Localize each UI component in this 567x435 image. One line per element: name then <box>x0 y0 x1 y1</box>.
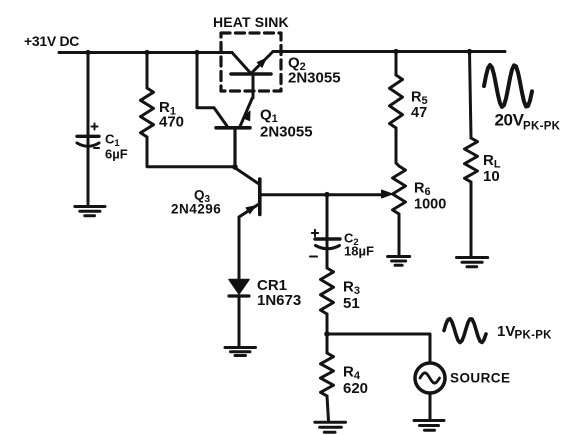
wire R1 bottom to base node <box>147 137 235 167</box>
ground CR1 <box>225 348 256 356</box>
svg-text:1000: 1000 <box>414 197 446 213</box>
wire R3 to junction <box>326 314 329 334</box>
node R3 R4 junction <box>324 331 330 337</box>
ground C1 <box>75 207 105 216</box>
wire Q3 base line <box>260 193 382 196</box>
node R5 top junction <box>393 49 398 54</box>
svg-text:R6: R6 <box>414 181 431 199</box>
svg-text:1V: 1V <box>497 323 515 340</box>
svg-text:PK-PK: PK-PK <box>515 330 553 342</box>
wire output rail <box>273 50 505 53</box>
svg-text:47: 47 <box>411 105 427 121</box>
svg-text:20V: 20V <box>495 111 525 130</box>
svg-text:18µF: 18µF <box>344 244 374 259</box>
heat sink dashed box <box>221 33 281 91</box>
node Q3 collector junction <box>232 164 238 170</box>
svg-text:51: 51 <box>343 295 360 312</box>
transistor Q2 <box>231 52 341 99</box>
waveform input sine <box>444 319 486 343</box>
wire source bottom lead <box>429 393 432 420</box>
node RL top junction <box>467 49 472 54</box>
svg-text:470: 470 <box>159 114 184 131</box>
wire C1 top lead <box>87 53 90 146</box>
waveform output sine <box>484 65 532 107</box>
wire +31V rail <box>59 51 232 54</box>
svg-text:1N673: 1N673 <box>257 292 301 309</box>
node Q1 collector junction <box>194 50 199 55</box>
ground SOURCE <box>414 421 444 431</box>
wire Q1 base lead <box>233 128 236 167</box>
svg-text:2N3055: 2N3055 <box>288 70 341 87</box>
svg-text:2N3055: 2N3055 <box>260 124 313 141</box>
node R1 top junction <box>144 50 149 55</box>
wire C1 bottom lead <box>87 147 90 206</box>
wire CR1 bottom lead <box>238 296 241 347</box>
wire R6 bottom lead <box>398 214 401 255</box>
svg-text:6µF: 6µF <box>105 147 128 162</box>
resistor R3 <box>321 249 360 314</box>
wire R4 bottom lead <box>327 396 329 421</box>
svg-text:+31V DC: +31V DC <box>24 33 79 49</box>
label +31V DC <box>24 33 79 49</box>
source V1 circle <box>415 363 445 393</box>
label SOURCE <box>450 371 510 386</box>
capacitor C1 <box>77 124 128 162</box>
resistor R5 <box>390 52 428 129</box>
svg-text:SOURCE: SOURCE <box>450 371 510 386</box>
resistor R1 <box>141 53 185 138</box>
resistor RL <box>465 52 501 186</box>
label HEAT SINK <box>213 14 289 30</box>
transistor Q3 <box>171 169 260 218</box>
node C1 top junction <box>85 50 90 55</box>
wire Q3 emitter lead <box>238 217 241 280</box>
ground RL <box>457 258 488 267</box>
svg-text:10: 10 <box>483 168 500 185</box>
wire junction to source <box>327 334 430 363</box>
wire RL bottom lead <box>470 182 473 256</box>
node C2 top junction <box>324 192 330 198</box>
capacitor C2 <box>310 195 374 259</box>
svg-text:HEAT SINK: HEAT SINK <box>213 14 289 30</box>
label 1V PK-PK <box>497 323 552 342</box>
ground R4 <box>315 422 346 432</box>
ground R6 <box>388 257 410 266</box>
wire R5 to R6 <box>396 128 399 166</box>
label 20V PK-PK <box>495 111 561 133</box>
transistor Q1 <box>216 98 313 141</box>
potentiometer R6 <box>382 166 447 214</box>
wire Q1 collector branch <box>197 53 227 127</box>
diode CR1 <box>229 277 301 309</box>
svg-text:PK-PK: PK-PK <box>523 121 561 133</box>
resistor R4 <box>321 334 369 397</box>
svg-text:620: 620 <box>343 380 368 397</box>
svg-text:2N4296: 2N4296 <box>171 202 221 217</box>
svg-text:Q1: Q1 <box>260 107 278 126</box>
